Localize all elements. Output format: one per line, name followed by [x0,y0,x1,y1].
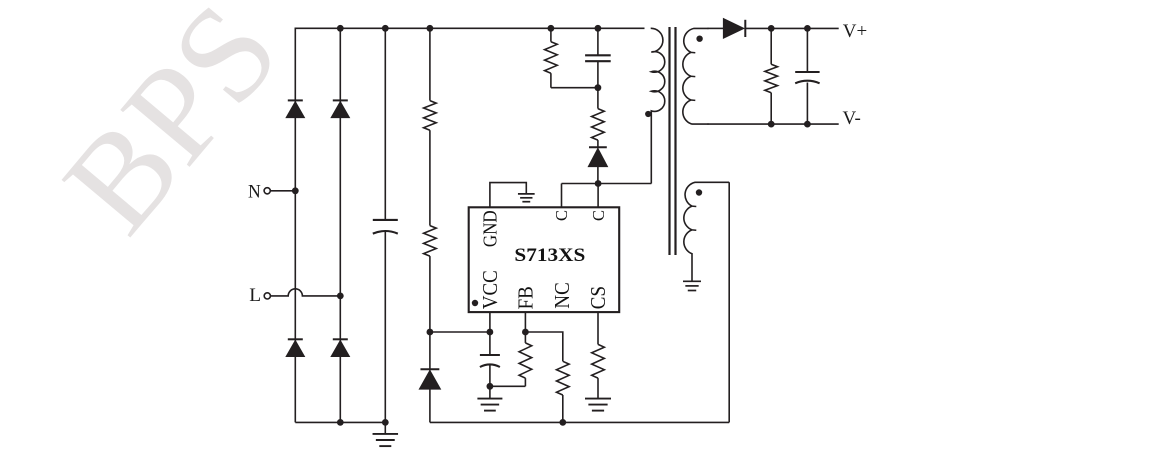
node VCC rail left junction [427,329,434,336]
wire bulk cap leg upper [384,28,386,220]
wire VCC diode leg [429,332,431,370]
capacitor C4 output [795,71,819,73]
wire VCC rail horizontal [430,331,490,333]
wire auxiliary return leg [728,182,730,422]
node output junction C top [804,25,811,32]
node output junction R bottom [768,121,775,128]
node output junction R top [768,25,775,32]
svg-text:NC: NC [551,282,574,308]
node L junction [337,293,344,300]
op-amp U1 S713XS body [469,207,620,312]
diode D1 bridge upper-left [286,102,304,118]
node top rail junction x551 [548,25,555,32]
node VCC pin junction [487,329,494,336]
resistor R6 FB lower [557,361,570,395]
ground at GND pin [518,193,535,195]
svg-text:C: C [552,210,571,221]
node snubber junction [595,84,602,91]
wire snubber R leg [550,28,552,41]
wire drain line [562,183,652,185]
wire bulk cap leg lower [384,232,386,423]
node VCC cap bottom junction [487,383,494,390]
wire L input with hop-over [270,289,340,296]
wire top rail [295,27,644,29]
wire CS pin leg [597,312,599,344]
svg-text:S713XS: S713XS [514,245,585,266]
diode D2 bridge upper-right [331,102,349,118]
wire left bridge leg [294,28,296,423]
node drain junction [595,180,602,187]
wire bottom rail [295,421,385,423]
svg-text:FB: FB [515,286,538,309]
wire startup leg to VCC node [429,256,431,332]
transformer T1 primary winding [651,28,665,183]
wire GND pin to ground [490,183,526,208]
node FB junction [522,329,529,336]
svg-text:CS: CS [587,286,610,309]
node bottom rail junction x385 [382,419,389,426]
wire VCC cap lower [489,365,491,386]
wire output resistor stubs [770,28,772,64]
T1 secondary polarity dot [696,36,702,42]
capacitor C1 bulk [373,219,398,221]
resistor R3 snubber [545,42,558,73]
svg-text:C: C [589,210,608,221]
capacitor C2 snubber [585,54,611,56]
transformer T1 auxiliary winding [684,182,729,281]
svg-text:GND: GND [479,210,502,247]
diode D6 clamp [588,148,607,166]
node top rail junction x385 [382,25,389,32]
resistor R1 startup upper [424,101,437,131]
wire V- line [708,123,839,125]
resistor R7 CS sense [592,344,605,378]
wire FB resistor bottom link [490,385,526,387]
wire C pin 1 [561,184,563,208]
node top rail junction x340 [337,25,344,32]
ground at CS resistor [585,398,611,400]
wire VCC pin leg [489,312,491,355]
capacitor C3 VCC [480,354,500,356]
wire C pin 2 [597,184,599,208]
terminal N [264,188,270,194]
wire CS ground stub [597,378,599,399]
wire right bridge leg [339,28,341,422]
transformer core [668,27,670,255]
wire VCC ground stub [489,386,491,398]
node N junction [292,187,299,194]
node top rail junction x598 [595,25,602,32]
wire V+ line [746,27,839,29]
node bottom rail junction x340 [337,419,344,426]
ground earth below bridge [384,422,386,434]
T1 auxiliary polarity dot [696,189,702,195]
resistor R4 clamp [592,109,605,141]
wire FB lower resistor to return [562,395,564,422]
transformer T1 secondary winding [683,28,709,124]
wire startup leg middle [429,130,431,225]
terminal L [264,293,270,299]
diode D3 bridge lower-left [286,341,304,357]
wire clamp resistor leg [597,88,599,109]
node output junction C bottom [804,121,811,128]
diode D5 VCC rectifier [419,370,440,389]
wire secondary to output diode [708,27,724,29]
wire N input [270,190,295,192]
node top rail junction x430 [427,25,434,32]
svg-text:V-: V- [843,108,861,129]
resistor R2 startup lower [424,226,437,257]
svg-text:V+: V+ [843,21,867,42]
resistor R8 output load [765,64,778,92]
wire bottom return [430,421,729,423]
wire FB jog [525,332,562,361]
resistor R5 FB upper [519,343,532,378]
ground at VCC cap [477,398,502,400]
ground at auxiliary winding [683,280,701,282]
svg-text:BPS: BPS [34,0,307,260]
wire output cap stubs [806,28,808,72]
diode D7 output rectifier [723,19,744,39]
svg-text:N: N [248,181,261,202]
wire startup leg top [429,28,431,100]
node bottom return junction [559,419,566,426]
T1 primary polarity dot [645,111,651,117]
svg-text:VCC: VCC [479,270,502,309]
wire FB pin leg [524,312,526,343]
U1 pin-1 dot [472,300,478,306]
svg-text:L: L [249,285,261,306]
wire snubber cap leg [597,28,599,55]
diode D4 bridge lower-right [331,341,349,357]
